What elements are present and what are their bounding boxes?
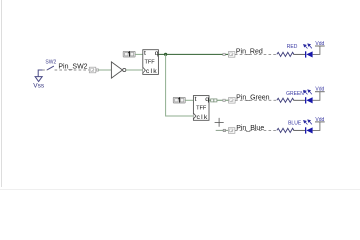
LED D3 blue bbox=[305, 127, 313, 133]
svg-text:SW2: SW2 bbox=[45, 59, 56, 65]
power Vdd (green row) bbox=[315, 91, 325, 93]
svg-text:clk: clk bbox=[146, 68, 158, 75]
wire dashed to Pin_SW2 bbox=[55, 69, 90, 71]
wire junction down to TFF2 clk bbox=[166, 54, 194, 116]
svg-text:RED: RED bbox=[287, 44, 298, 50]
svg-text:q: q bbox=[155, 50, 159, 57]
wire LED to Vdd bbox=[313, 92, 320, 101]
crosshair cursor bbox=[215, 118, 224, 127]
svg-text:Pin_Blue: Pin_Blue bbox=[236, 125, 264, 132]
flip-flop TFF1 bbox=[143, 50, 159, 75]
node terminal before Pin_Blue bbox=[223, 129, 225, 131]
wire constant to TFF2 t bbox=[185, 99, 193, 101]
ground Vss symbol bbox=[35, 77, 42, 82]
pin Pin_Green bbox=[229, 98, 236, 104]
wire Pin_Blue stub bbox=[216, 129, 229, 131]
wire dashed Pin_Blue to resistor bbox=[235, 129, 277, 131]
LED D2 arrows bbox=[304, 90, 312, 95]
LED D2 green bbox=[305, 97, 313, 103]
inverter U1 bbox=[111, 62, 126, 78]
junction node bbox=[164, 53, 167, 56]
wire LED to Vdd bbox=[313, 122, 320, 130]
terminal squares on q wire bbox=[211, 99, 214, 102]
wire TFF1 q to Pin_Red bbox=[158, 53, 228, 55]
power Vdd (red row) bbox=[315, 45, 325, 47]
svg-text:GREEN: GREEN bbox=[286, 91, 304, 97]
svg-text:Vss: Vss bbox=[33, 83, 45, 90]
svg-text:q: q bbox=[205, 96, 209, 103]
node terminal before Pin_Green bbox=[223, 99, 225, 101]
svg-text:Vdd: Vdd bbox=[315, 117, 324, 123]
panel edge left bbox=[1, 0, 3, 187]
svg-text:BLUE: BLUE bbox=[288, 121, 302, 127]
pin Pin_SW2 bbox=[89, 67, 96, 73]
svg-text:t: t bbox=[195, 96, 197, 103]
wire dashed Pin_Green to resistor bbox=[235, 99, 277, 101]
svg-text:clk: clk bbox=[197, 114, 209, 121]
svg-text:Vdd: Vdd bbox=[315, 87, 324, 93]
svg-text:TFF: TFF bbox=[196, 105, 207, 111]
LED D1 arrows bbox=[304, 44, 312, 49]
LED D3 arrows bbox=[304, 120, 312, 125]
wire resistor to LED bbox=[293, 53, 305, 55]
svg-text:Vdd: Vdd bbox=[315, 41, 324, 47]
wire LED to Vdd bbox=[313, 46, 320, 54]
power Vdd (blue row) bbox=[315, 121, 325, 123]
wire TFF2 q stub bbox=[209, 99, 229, 101]
wire dashed switch gap bbox=[43, 69, 48, 71]
wire constant to TFF1 t bbox=[135, 53, 143, 55]
wire resistor to LED bbox=[293, 99, 305, 101]
svg-text:t: t bbox=[144, 50, 146, 57]
logic high constant 1 (for TFF2) bbox=[173, 97, 185, 103]
pin Pin_Blue bbox=[228, 128, 235, 134]
logic high constant 1 (for TFF1) bbox=[123, 51, 135, 57]
LED D1 red bbox=[305, 51, 313, 57]
node terminal before Pin_Red bbox=[223, 53, 225, 55]
panel edge bottom bbox=[0, 189, 360, 191]
wire inverter to TFF1 clk bbox=[126, 69, 143, 71]
wire dashed Pin_Red to resistor bbox=[235, 53, 277, 55]
wire resistor to LED bbox=[293, 129, 305, 131]
resistor R3 bbox=[277, 128, 294, 132]
resistor R1 bbox=[277, 52, 294, 56]
resistor R2 bbox=[277, 98, 294, 102]
switch SW2 bbox=[38, 66, 54, 77]
svg-text:TFF: TFF bbox=[144, 60, 155, 66]
svg-text:Pin_SW2: Pin_SW2 bbox=[58, 63, 87, 70]
flip-flop TFF2 bbox=[193, 96, 209, 121]
terminal square bbox=[96, 69, 98, 71]
wire pin to inverter bbox=[98, 69, 111, 71]
pin Pin_Red bbox=[228, 52, 235, 58]
